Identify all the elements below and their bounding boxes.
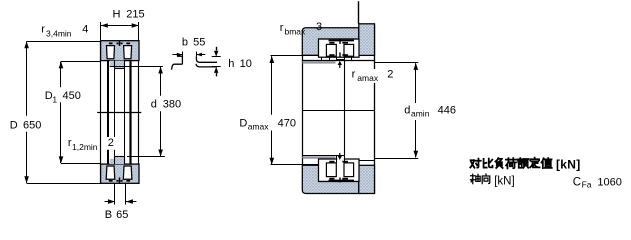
svg-text:D: D [10,119,18,131]
svg-text:b: b [182,36,188,48]
svg-text:r: r [280,22,284,34]
svg-text:amax: amax [248,121,270,131]
svg-text:4: 4 [82,24,88,36]
svg-text:r: r [352,68,356,80]
svg-text:amin: amin [411,109,430,119]
svg-text:H: H [113,9,121,21]
svg-text:Fa: Fa [582,179,592,189]
svg-text:D: D [239,118,247,130]
svg-text:amax: amax [357,73,379,83]
svg-text:1: 1 [52,94,57,104]
svg-text:650: 650 [23,119,41,131]
svg-text:470: 470 [278,118,296,130]
svg-text:380: 380 [163,98,181,110]
svg-text:2: 2 [387,68,393,80]
svg-text:[kN]: [kN] [494,175,514,187]
svg-text:1,2min: 1,2min [72,142,98,152]
svg-text:B: B [105,209,112,221]
svg-text:bmax: bmax [285,26,307,36]
svg-text:1060: 1060 [597,176,621,188]
svg-text:55: 55 [193,36,205,48]
svg-text:d: d [404,104,410,116]
svg-text:h: h [228,58,234,70]
svg-text:215: 215 [126,9,144,21]
svg-text:65: 65 [116,209,128,221]
svg-text:d: d [151,98,157,110]
svg-text:2: 2 [108,137,114,149]
svg-text:3: 3 [316,21,322,33]
svg-text:C: C [573,176,581,188]
svg-text:10: 10 [240,58,252,70]
svg-text:450: 450 [63,90,81,102]
svg-text:r: r [41,23,45,35]
svg-text:3,4min: 3,4min [46,28,72,38]
svg-text:[kN]: [kN] [556,158,581,172]
svg-text:446: 446 [438,104,456,116]
